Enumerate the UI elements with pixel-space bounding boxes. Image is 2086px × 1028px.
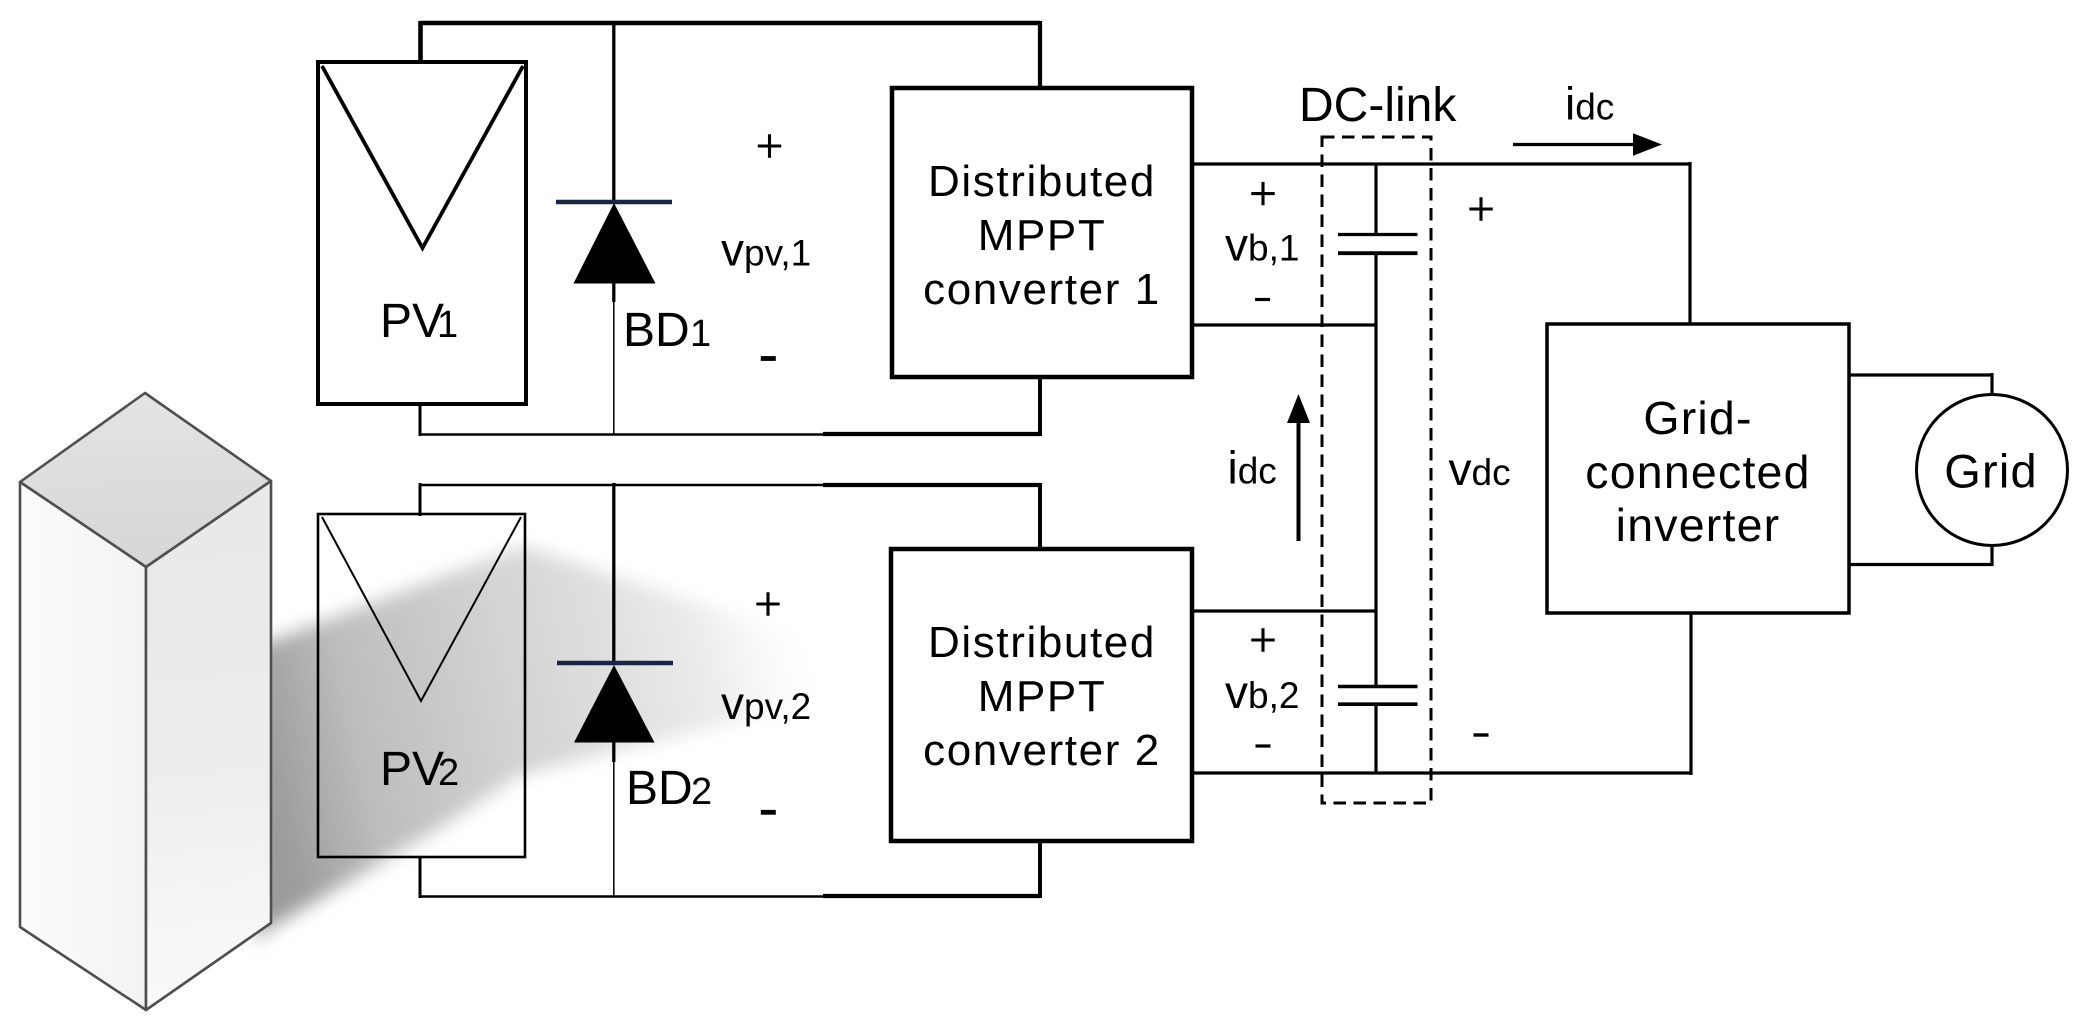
svg-text:Distributed: Distributed — [928, 157, 1156, 206]
svg-text:PV: PV — [380, 295, 444, 348]
svg-text:1: 1 — [437, 304, 458, 346]
svg-text:Grid-: Grid- — [1643, 392, 1752, 444]
svg-text:2: 2 — [438, 752, 459, 794]
svg-text:BD: BD — [623, 304, 690, 357]
svg-text:PV: PV — [380, 743, 444, 796]
svg-text:DC-link: DC-link — [1299, 79, 1457, 132]
svg-text:MPPT: MPPT — [978, 672, 1107, 721]
svg-text:Distributed: Distributed — [928, 618, 1156, 667]
svg-text:converter 1: converter 1 — [923, 265, 1161, 314]
svg-text:converter 2: converter 2 — [923, 726, 1161, 775]
svg-text:Grid: Grid — [1944, 445, 2038, 498]
svg-text:1: 1 — [690, 313, 711, 355]
svg-text:inverter: inverter — [1616, 499, 1781, 551]
svg-text:connected: connected — [1585, 446, 1810, 498]
svg-text:2: 2 — [691, 771, 712, 813]
svg-text:BD: BD — [626, 762, 693, 815]
svg-text:MPPT: MPPT — [978, 211, 1107, 260]
